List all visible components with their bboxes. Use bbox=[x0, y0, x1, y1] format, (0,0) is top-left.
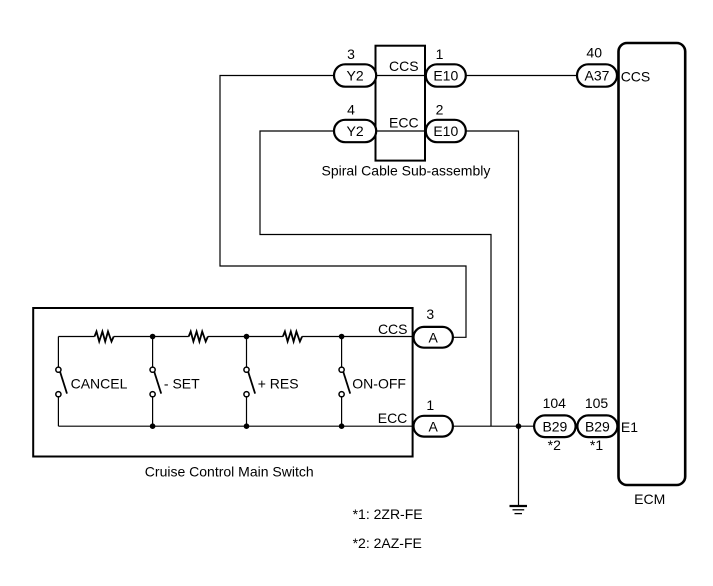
svg-text:2: 2 bbox=[436, 102, 444, 118]
svg-text:CCS: CCS bbox=[389, 58, 419, 74]
svg-text:E1: E1 bbox=[621, 419, 638, 435]
svg-text:4: 4 bbox=[347, 102, 355, 118]
svg-text:40: 40 bbox=[586, 45, 602, 61]
svg-text:105: 105 bbox=[585, 395, 609, 411]
svg-text:- SET: - SET bbox=[164, 376, 200, 392]
svg-text:ON-OFF: ON-OFF bbox=[352, 376, 406, 392]
svg-text:CCS: CCS bbox=[621, 68, 651, 84]
svg-text:ECC: ECC bbox=[378, 410, 408, 426]
svg-text:1: 1 bbox=[426, 397, 434, 413]
svg-text:E10: E10 bbox=[433, 123, 458, 139]
svg-text:Spiral Cable Sub-assembly: Spiral Cable Sub-assembly bbox=[322, 162, 491, 178]
svg-text:+ RES: + RES bbox=[258, 376, 299, 392]
svg-text:*2: *2 bbox=[548, 437, 561, 453]
svg-text:3: 3 bbox=[347, 46, 355, 62]
svg-text:A: A bbox=[429, 330, 439, 346]
svg-text:*1: *1 bbox=[590, 437, 603, 453]
svg-text:CANCEL: CANCEL bbox=[71, 376, 128, 392]
svg-text:Y2: Y2 bbox=[347, 123, 364, 139]
svg-text:1: 1 bbox=[436, 46, 444, 62]
svg-text:Y2: Y2 bbox=[347, 68, 364, 84]
svg-text:A: A bbox=[429, 418, 439, 434]
svg-text:B29: B29 bbox=[585, 418, 610, 434]
svg-text:A37: A37 bbox=[585, 68, 610, 84]
svg-text:*2: 2AZ-FE: *2: 2AZ-FE bbox=[353, 535, 422, 551]
svg-text:104: 104 bbox=[543, 395, 567, 411]
svg-text:3: 3 bbox=[426, 306, 434, 322]
svg-text:B29: B29 bbox=[542, 418, 567, 434]
svg-text:ECM: ECM bbox=[634, 491, 665, 507]
svg-text:Cruise Control Main Switch: Cruise Control Main Switch bbox=[145, 464, 314, 480]
svg-text:ECC: ECC bbox=[389, 114, 419, 130]
svg-text:E10: E10 bbox=[433, 68, 458, 84]
svg-text:*1: 2ZR-FE: *1: 2ZR-FE bbox=[353, 506, 423, 522]
svg-text:CCS: CCS bbox=[378, 321, 408, 337]
